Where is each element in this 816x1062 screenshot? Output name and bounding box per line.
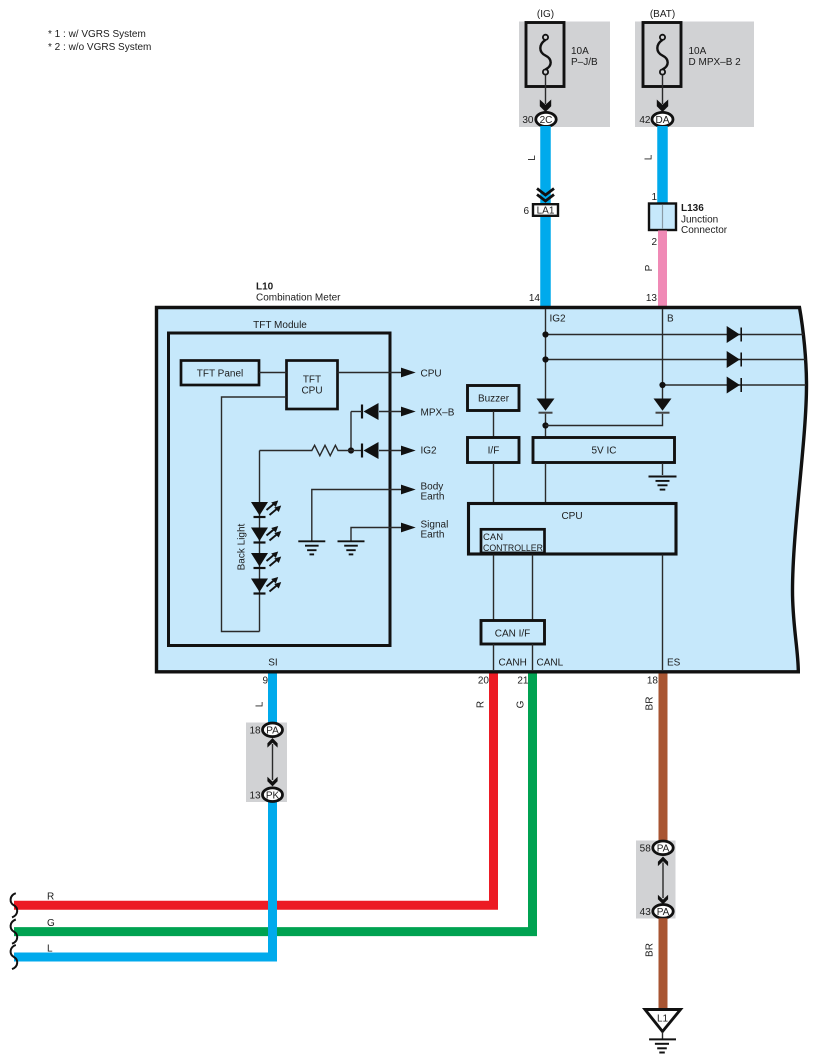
fuse block background (IG) [519, 22, 610, 128]
wire TFT Panel to TFT CPU [259, 372, 287, 374]
svg-text:13: 13 [646, 293, 658, 304]
TFT CPU box [287, 361, 338, 410]
node join [542, 422, 548, 428]
wire CAN controller to CAN I/F (L) [532, 555, 534, 621]
connector oval PA lower [653, 905, 673, 919]
wire 5V IC to CPU [545, 463, 547, 504]
fuse 10A D MPX-B 2 [643, 23, 681, 87]
svg-text:D MPX–B 2: D MPX–B 2 [689, 57, 742, 68]
svg-text:P: P [644, 264, 655, 271]
svg-text:30: 30 [522, 115, 534, 126]
wire CAN I/F to CANH pin [493, 644, 495, 670]
svg-text:CANH: CANH [499, 658, 527, 669]
svg-text:18: 18 [249, 726, 261, 737]
arrow up [658, 857, 668, 867]
diode IG2 down [537, 399, 555, 413]
svg-text:TFT: TFT [303, 375, 321, 386]
svg-text:CPU: CPU [421, 369, 442, 380]
svg-text:Earth: Earth [421, 530, 445, 541]
ground signal earth [338, 541, 365, 554]
svg-text:PK: PK [266, 790, 280, 801]
wire IG2 diode to 5V IC [545, 414, 547, 438]
CAN CONTROLLER box [481, 529, 545, 554]
svg-text:L: L [644, 154, 655, 160]
svg-text:BR: BR [645, 943, 656, 957]
wire L (blue) from 2C to pin 14 [540, 126, 551, 308]
svg-text:CPU: CPU [561, 511, 582, 522]
LED D1 [251, 501, 281, 518]
arrowhead into DA [657, 100, 668, 113]
svg-text:DA: DA [656, 115, 670, 126]
svg-text:9: 9 [262, 676, 268, 687]
fuse 10A P-J/B [526, 23, 564, 87]
I/F box [468, 438, 520, 463]
svg-text:G: G [516, 700, 527, 708]
svg-text:20: 20 [478, 676, 490, 687]
wire CPU to ES pin [662, 555, 664, 671]
wire B diode join [546, 414, 663, 426]
svg-text:CPU: CPU [301, 386, 322, 397]
svg-text:IG2: IG2 [421, 446, 438, 457]
svg-text:MPX–B: MPX–B [421, 408, 455, 419]
svg-text:P–J/B: P–J/B [571, 57, 598, 68]
connector oval PA [263, 723, 283, 737]
wire MPX-B diode to IG2 node [350, 412, 352, 451]
svg-text:PA: PA [266, 725, 279, 736]
svg-text:IG2: IG2 [550, 314, 567, 325]
wire fuse to connector DA [662, 75, 664, 104]
LED D4 [251, 577, 281, 594]
svg-text:Back Light: Back Light [237, 523, 248, 570]
svg-text:L1: L1 [657, 1014, 669, 1025]
connector oval 2C [536, 112, 556, 126]
wire diode row 2 [546, 359, 806, 361]
wire G (green) CANL down [14, 674, 533, 932]
svg-text:10A: 10A [689, 46, 707, 57]
svg-text:58: 58 [640, 844, 652, 855]
svg-text:(BAT): (BAT) [650, 9, 675, 20]
diode row 1 [727, 326, 742, 343]
wire fuse to connector 2C [545, 75, 547, 104]
svg-text:2C: 2C [540, 115, 553, 126]
TFT Panel box [181, 361, 259, 386]
diode B down [654, 399, 672, 413]
wire Body Earth [312, 490, 403, 541]
ground point L1 [645, 1010, 681, 1032]
squiggle L [11, 945, 18, 969]
resistor backlight [260, 445, 349, 455]
wire Signal Earth [351, 528, 403, 541]
wire P (pink) junction to pin 13 [658, 231, 667, 309]
svg-text:1: 1 [651, 192, 657, 203]
LED D2 [251, 526, 281, 543]
diode IG2 [348, 442, 403, 459]
arrow IG2 [401, 446, 416, 456]
svg-text:L: L [47, 944, 53, 955]
svg-text:43: 43 [640, 907, 652, 918]
svg-text:Junction: Junction [681, 215, 718, 226]
wire CAN I/F to CANL pin [532, 644, 534, 670]
svg-text:Combination Meter: Combination Meter [256, 293, 341, 304]
node row 3 [659, 382, 665, 388]
5V IC box [533, 438, 675, 463]
splice chevrons into LA1 [537, 189, 554, 202]
node IG2 internal [348, 447, 354, 453]
diode row 2 [727, 351, 742, 368]
svg-text:18: 18 [647, 676, 659, 687]
arrow Signal Earth [401, 523, 416, 533]
wire between arrows [272, 744, 274, 780]
arrow Body Earth [401, 485, 416, 495]
svg-text:TFT Module: TFT Module [253, 320, 307, 331]
connector oval PA upper [653, 841, 673, 855]
svg-text:L136: L136 [681, 203, 704, 214]
wire TFT CPU to CPU arrow [338, 372, 404, 374]
svg-text:PA: PA [657, 907, 670, 918]
buzzer box [468, 386, 520, 411]
svg-text:I/F: I/F [488, 446, 500, 457]
svg-text:Connector: Connector [681, 225, 728, 236]
backlight LED chain wire [259, 451, 261, 632]
node row 1 [542, 331, 548, 337]
wire L (blue) SI down [14, 674, 273, 958]
connector block PA/PK background [246, 723, 287, 803]
diode row 3 [727, 377, 742, 394]
ground body earth [298, 541, 325, 554]
svg-text:R: R [476, 701, 487, 708]
svg-text:L: L [527, 155, 538, 161]
TFT module box [169, 333, 391, 646]
svg-text:G: G [47, 918, 55, 929]
blue wire over red/green [268, 890, 277, 945]
wire between arrows [662, 863, 664, 899]
ground 5V IC [649, 463, 677, 490]
wire B vertical [662, 309, 664, 399]
svg-text:Buzzer: Buzzer [478, 394, 510, 405]
arrow up [267, 738, 277, 748]
svg-text:10A: 10A [571, 46, 589, 57]
connector oval DA [652, 112, 673, 126]
wire L (blue) from DA to junction connector [657, 126, 668, 204]
arrow CPU [401, 368, 416, 378]
LED D3 [251, 552, 281, 569]
svg-text:2: 2 [651, 237, 657, 248]
svg-text:21: 21 [517, 676, 529, 687]
connector LA1 [533, 204, 558, 216]
svg-text:CAN: CAN [483, 532, 503, 543]
svg-text:* 2 : w/o VGRS System: * 2 : w/o VGRS System [48, 42, 151, 53]
wire I/F to CPU [493, 463, 495, 504]
fuse block background (BAT) [635, 22, 754, 128]
node row 2 [542, 356, 548, 362]
CAN I/F box [481, 621, 545, 645]
backlight return wire [222, 397, 287, 632]
wire IG2 vertical [545, 309, 547, 399]
svg-text:13: 13 [249, 791, 261, 802]
svg-text:CONTROLLER: CONTROLLER [483, 543, 543, 554]
wire BR (brown) to ground [659, 918, 668, 1009]
wire diode row 1 [546, 334, 804, 336]
wire buzzer to I/F [493, 411, 495, 438]
svg-text:ES: ES [667, 658, 681, 669]
svg-text:B: B [667, 314, 674, 325]
svg-text:14: 14 [529, 293, 541, 304]
wire diode row 3 [663, 384, 807, 386]
combination meter box L10 [157, 308, 807, 672]
svg-text:L: L [255, 701, 266, 707]
svg-text:LA1: LA1 [537, 206, 555, 217]
arrowhead into 2C [540, 100, 551, 113]
svg-text:42: 42 [639, 115, 651, 126]
svg-text:* 1 : w/ VGRS System: * 1 : w/ VGRS System [48, 29, 146, 40]
wire R (red) CANH down [14, 674, 494, 906]
svg-text:6: 6 [523, 206, 529, 217]
svg-text:BR: BR [645, 697, 656, 711]
svg-text:L10: L10 [256, 282, 274, 293]
connector block PA/PA background [636, 841, 676, 919]
squiggle G [11, 920, 18, 944]
diode MPX-B [351, 403, 403, 420]
junction connector L136 [649, 204, 676, 231]
connector oval PK [263, 788, 283, 802]
svg-text:5V IC: 5V IC [591, 446, 616, 457]
arrow down [267, 777, 277, 787]
svg-text:TFT Panel: TFT Panel [197, 369, 244, 380]
wire CAN controller to CAN I/F (H) [493, 555, 495, 621]
arrow down [658, 895, 668, 905]
CPU box [469, 504, 677, 555]
svg-text:CAN I/F: CAN I/F [495, 629, 531, 640]
svg-text:SI: SI [268, 658, 277, 669]
svg-text:(IG): (IG) [537, 9, 554, 20]
svg-text:R: R [47, 892, 54, 903]
arrow MPX-B [401, 407, 416, 417]
ground symbol [649, 1032, 676, 1053]
svg-text:Earth: Earth [421, 491, 445, 502]
svg-text:PA: PA [657, 843, 670, 854]
svg-text:CANL: CANL [537, 658, 564, 669]
squiggle R [11, 893, 18, 917]
wire BR (brown) ES down [659, 674, 668, 842]
